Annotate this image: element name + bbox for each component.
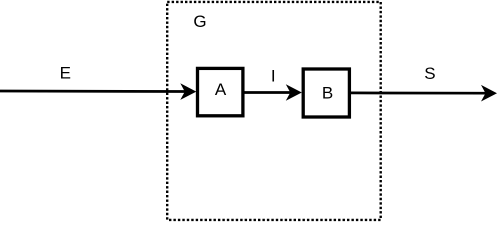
arrowhead into B — [286, 84, 302, 101]
svg-text:G: G — [193, 12, 206, 31]
arrowhead S output — [481, 85, 497, 102]
svg-text:I: I — [271, 67, 276, 86]
svg-text:A: A — [215, 80, 227, 99]
svg-text:S: S — [424, 64, 435, 83]
block B — [303, 69, 349, 117]
svg-text:E: E — [60, 64, 71, 83]
svg-text:B: B — [322, 84, 333, 103]
system boundary box G (dotted) — [167, 2, 381, 220]
wire B to output S — [351, 92, 487, 95]
wire A to B — [244, 91, 292, 94]
block A — [198, 68, 243, 115]
arrowhead into A — [180, 83, 196, 100]
wire E input — [0, 90, 185, 93]
